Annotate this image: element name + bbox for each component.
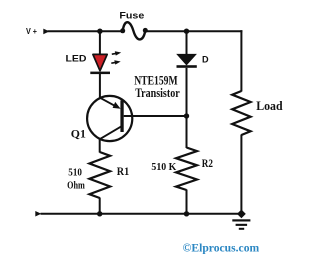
svg-text:R1: R1 [117,166,130,178]
terminal pin V+ [43,29,49,35]
wire: base node down to R2 [186,116,188,148]
svg-text:©Elprocus.com: ©Elprocus.com [183,242,260,255]
svg-text:Q1: Q1 [71,129,86,141]
wire: diode cathode to base node [186,68,188,116]
svg-text:510: 510 [68,167,82,178]
node: R1 bottom junction [97,211,102,216]
wire: Q1 collector down to R1 [99,139,101,153]
svg-text:Fuse: Fuse [119,10,144,20]
wire: Load to ground [240,135,242,211]
wire: R1 to bottom rail [99,198,101,214]
resistor Load [232,91,250,135]
svg-text:R2: R2 [202,158,213,170]
node: R2 bottom junction [184,211,189,216]
ground [232,210,250,230]
transistor Q1 (PNP) [87,96,132,141]
svg-text:Transistor: Transistor [135,86,180,100]
wire: top-right corner down to Load [240,30,242,91]
resistor R1 [89,152,110,198]
wire: R2 to bottom rail [186,190,188,214]
wire: LED cathode to Q1 emitter [99,74,101,99]
svg-text:D: D [202,54,209,65]
wire: fuse to top-right corner [145,30,242,32]
bottom rail wire [41,213,239,215]
svg-text:510 K: 510 K [151,162,177,173]
svg-text:Ohm: Ohm [67,180,85,191]
svg-text:Load: Load [256,98,283,113]
svg-text:V +: V + [26,27,37,36]
node: base junction [184,113,189,118]
wire: Q1 base to R2 node [124,115,187,117]
node: LED branch junction [97,29,102,34]
LED emission arrow 2 [111,60,120,64]
terminal pin bottom-left [35,211,41,217]
LED (red) [90,54,110,74]
resistor R2 [176,148,197,191]
fuse F1 [120,22,148,39]
wire: top junction down to LED anode [99,31,101,55]
diode D [177,31,197,68]
node: diode branch junction [184,29,189,34]
wire: V+ terminal to fuse [48,30,124,32]
svg-text:LED: LED [66,53,87,64]
LED emission arrow 1 [112,51,121,55]
